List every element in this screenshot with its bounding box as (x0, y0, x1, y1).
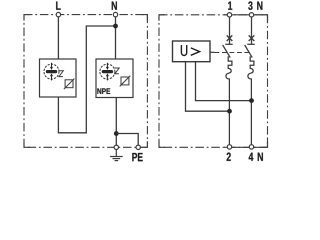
ground symbol (110, 150, 123, 161)
label N (bottom right) (258, 153, 263, 161)
right enclosure solid segments near terminals (224, 15, 268, 23)
terminal 2 (227, 145, 231, 149)
wire NPE box bottom to ground node (115, 98, 117, 146)
spark gap symbol NPE (100, 63, 115, 81)
arrester box L (spark gap + disconnector) (40, 59, 77, 97)
wire junction to PE terminal (116, 134, 138, 146)
node pole1 junction (227, 109, 232, 114)
node PE junction (114, 131, 119, 136)
label 3 (248, 1, 252, 10)
terminal N (113, 12, 117, 16)
spark gap symbol F1 (44, 63, 59, 81)
stub from U> box (210, 51, 215, 53)
label 4 (249, 153, 254, 161)
left enclosure dash-dot border (24, 15, 147, 148)
label PE (132, 153, 142, 161)
U glyph (181, 45, 186, 56)
arrester box NPE (N-PE spark gap) (96, 59, 133, 98)
node pole2 junction (249, 98, 254, 103)
terminal ground (114, 145, 118, 149)
left enclosure corner stubs (24, 15, 147, 148)
terminal 1 (227, 13, 231, 17)
terminal L (56, 12, 60, 16)
wire L down to arrester box (57, 17, 59, 59)
> glyph (191, 48, 200, 55)
node N junction (113, 24, 118, 29)
terminal PE (136, 145, 140, 149)
label N (top right) (257, 2, 262, 10)
wire U> box to pole 2 (upper) (196, 62, 252, 101)
terminal 4 (249, 145, 253, 149)
label L (56, 2, 60, 10)
label N (top left) (112, 2, 117, 10)
breaker pole 1 (223, 17, 233, 145)
label 1 (228, 2, 232, 10)
wire from L-arrester bottom stepping up to N node (58, 26, 115, 133)
wire U> box to pole 1 (lower) (186, 62, 230, 111)
disconnector symbol F1 (59, 71, 75, 89)
terminal 3 (249, 13, 253, 17)
label 2 (227, 153, 231, 161)
disconnector symbol NPE (115, 68, 131, 86)
right enclosure corner stubs (159, 15, 268, 148)
undervoltage release box U> (173, 41, 211, 62)
right enclosure dash-dot border (159, 15, 268, 148)
wire N down to NPE box (115, 17, 117, 59)
breaker pole 2 (245, 17, 255, 145)
dashed trip linkage (215, 52, 252, 54)
